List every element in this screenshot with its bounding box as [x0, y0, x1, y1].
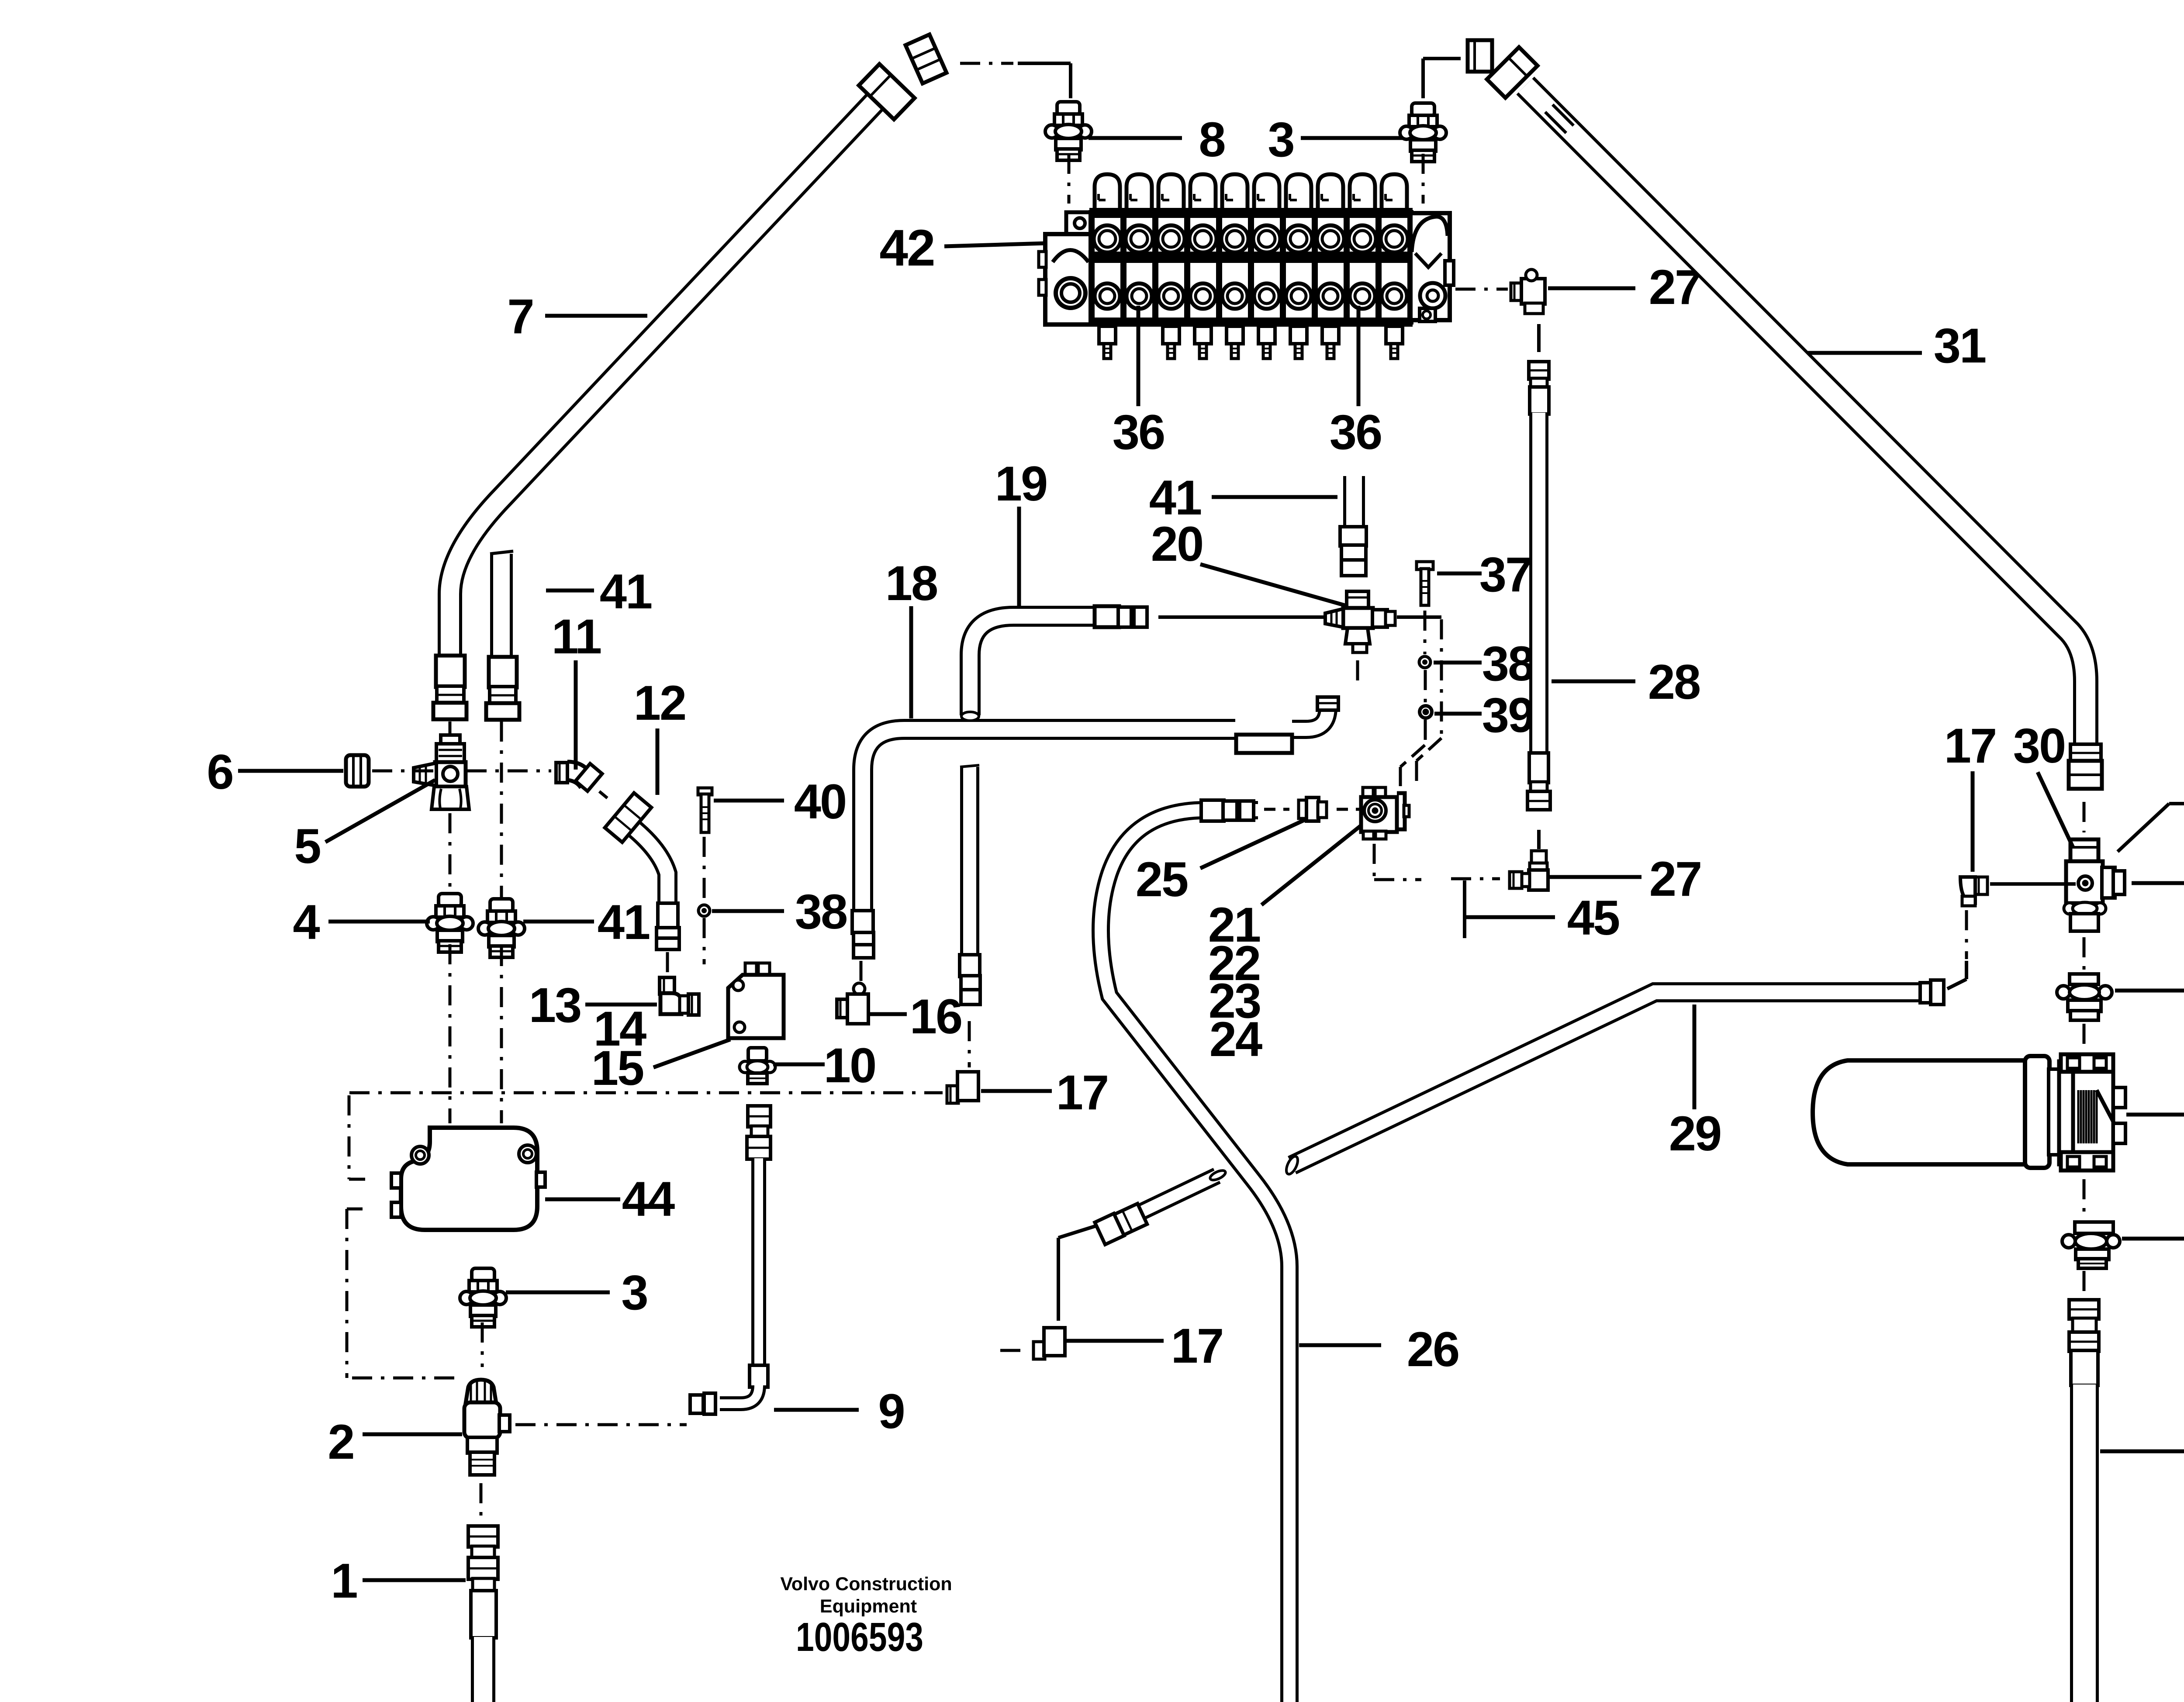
- filter 43 canister: [1813, 1060, 2025, 1164]
- label 27 lower leader: [1549, 875, 1641, 879]
- elbow 27 top: [1511, 283, 1522, 300]
- hose 29 end collar: [1920, 983, 1932, 1003]
- hose 41 left nut: [486, 703, 519, 720]
- label 9 leader: [774, 1408, 859, 1412]
- svg-text:19: 19: [995, 456, 1047, 511]
- hose 18 right elbow nut: [1317, 697, 1338, 710]
- cross fitting 20 left cone: [1325, 609, 1343, 627]
- svg-text:31: 31: [1934, 318, 1986, 373]
- hose 9: [751, 1158, 766, 1366]
- centerline fitting 32 to filter 43: [2083, 1024, 2086, 1048]
- svg-text:1: 1: [331, 1554, 357, 1608]
- elbow 16: [854, 983, 865, 994]
- stub hose: [1118, 1176, 1217, 1223]
- label 33 leader: [2122, 1237, 2184, 1241]
- centerline fitting 4 down: [449, 944, 452, 1123]
- svg-text:41: 41: [598, 895, 650, 949]
- nut 25: [1299, 800, 1307, 818]
- label 41 upper leader: [546, 589, 594, 593]
- label 31 leader: [1807, 351, 1922, 355]
- hose 31 top ferrule: [1487, 47, 1538, 98]
- svg-text:30: 30: [2013, 718, 2065, 773]
- label 28 leader: [1552, 680, 1635, 684]
- label 2 leader: [363, 1433, 462, 1436]
- centerline washer 38 down to block 15: [703, 918, 706, 964]
- centerline fitting 3 to valve: [1422, 154, 1425, 204]
- svg-text:41: 41: [600, 564, 652, 619]
- valve bank 42 left mounting ear: [1066, 212, 1092, 235]
- centerline cross 20 down: [1356, 660, 1359, 684]
- hose 31: [1525, 86, 2086, 745]
- label 36 right leader: [2118, 804, 2169, 852]
- centerline hose 41 down to fitting 41: [500, 722, 503, 898]
- nut 6: [346, 755, 369, 787]
- link line cross 20 right to corner: [1397, 615, 1441, 619]
- fitting 41 lower: [490, 899, 513, 912]
- hose 19 rings: [1118, 607, 1131, 627]
- hose 9 lower ferrule: [750, 1365, 768, 1387]
- hose 29: [1292, 992, 1918, 1165]
- block 15 top fitting: [745, 963, 757, 975]
- label 39 leader: [1434, 712, 1482, 716]
- hose 7 upper 45-deg ferrule: [859, 64, 915, 120]
- svg-text:38: 38: [1482, 636, 1534, 691]
- filter 43 right tabs: [2113, 1087, 2125, 1108]
- fitting 10: [748, 1048, 767, 1061]
- elbow 11: [556, 763, 567, 783]
- hose 41 left ferrule: [489, 657, 517, 687]
- hose 26: [1101, 810, 1289, 1702]
- centerline hose 28 bottom to elbow 27 lower: [1537, 830, 1541, 849]
- elbow 27 lower: [1531, 851, 1546, 864]
- svg-text:17: 17: [1944, 718, 1996, 773]
- hose 1 hex: [468, 1557, 498, 1579]
- svg-text:6: 6: [207, 745, 232, 799]
- cross fitting 20 body: [1343, 608, 1373, 628]
- centerline tee 5 to elbow 11: [372, 770, 435, 773]
- svg-text:26: 26: [1407, 1322, 1459, 1377]
- hose 16 ferrule: [960, 955, 980, 977]
- label 30 leader: [2038, 772, 2073, 847]
- label 37 leader: [1437, 572, 1482, 576]
- label 7 leader: [545, 314, 647, 318]
- hose 19 sleeve: [1095, 606, 1119, 627]
- svg-text:27: 27: [1649, 852, 1701, 906]
- filter 43 neck: [2049, 1069, 2060, 1155]
- hose 1 top nut: [468, 1526, 498, 1547]
- hose 9 band: [751, 1126, 768, 1137]
- filter 43 head plate: [2059, 1061, 2074, 1164]
- valve 2: [466, 1380, 496, 1403]
- hose 31 bottom nut: [2069, 761, 2102, 789]
- svg-text:13: 13: [529, 978, 581, 1032]
- svg-text:17: 17: [1056, 1065, 1108, 1120]
- label 27 top leader: [1548, 287, 1635, 290]
- label 42 leader: [944, 243, 1045, 246]
- svg-text:39: 39: [1482, 688, 1534, 742]
- hose 31 bottom collar: [2070, 744, 2101, 762]
- hose 19: [970, 616, 1094, 715]
- label 17 middle leader: [981, 1089, 1052, 1093]
- centerline tee 5 down to fitting 4: [449, 813, 452, 892]
- block 15 plate: [728, 975, 784, 1038]
- label 10 leader: [773, 1063, 825, 1067]
- valve bank 42 top row ports: [1094, 225, 1121, 252]
- valve bank 42 bottom studs: [1099, 326, 1116, 344]
- bolt 40: [698, 788, 712, 795]
- label 41 middle leader: [1212, 495, 1337, 499]
- hose 28 bottom sleeve: [1529, 753, 1548, 783]
- fitting 33: [2075, 1222, 2113, 1233]
- hose 34 top collar: [2073, 1318, 2096, 1333]
- elbow 17 middle: [963, 1073, 975, 1085]
- label 4 leader: [328, 920, 430, 924]
- svg-text:5: 5: [294, 819, 320, 873]
- label 43 leader: [2126, 1113, 2184, 1117]
- svg-text:7: 7: [507, 289, 533, 344]
- svg-text:8: 8: [1199, 112, 1224, 167]
- label 34 leader: [2100, 1450, 2184, 1453]
- hose 26 top ferrule: [1201, 800, 1224, 821]
- centerline fitting 33 to hose 34: [2083, 1271, 2086, 1295]
- link hose 29 nut to elbow 17 right: [1965, 961, 1968, 979]
- hose 28 top collar: [1531, 378, 1547, 388]
- hose 34 sleeve: [2071, 1350, 2098, 1385]
- label 6 leader: [238, 769, 343, 773]
- hose 31 collar ticks: [1545, 104, 1573, 133]
- centerline elbow 11 to hose 12: [599, 791, 610, 800]
- hose 16 rings: [961, 976, 980, 991]
- cross fitting 20 right port: [1372, 610, 1387, 627]
- hose 16 vertical: [960, 767, 979, 956]
- centerline left of elbow 17 bottom: [1000, 1349, 1020, 1352]
- svg-text:Equipment: Equipment: [820, 1596, 917, 1617]
- hose 1: [471, 1637, 495, 1702]
- centerline from hose 7 to fitting 8: [960, 62, 1013, 65]
- cross fitting 20 bottom skirt: [1345, 628, 1370, 644]
- label 5 leader: [325, 780, 435, 842]
- valve bank 42 right end block: [1410, 213, 1450, 320]
- hose 34 second nut: [2069, 1332, 2099, 1351]
- hose 41 middle: [1343, 476, 1365, 528]
- centerline horizontal main: [349, 1091, 943, 1094]
- label 32 leader: [2115, 989, 2184, 993]
- valve 44 screws: [411, 1146, 429, 1164]
- centerline above elbow 17 middle: [968, 1021, 971, 1067]
- svg-text:18: 18: [885, 556, 937, 611]
- cross fitting 20 bottom nub: [1353, 644, 1367, 652]
- svg-text:44: 44: [622, 1172, 675, 1226]
- hose 12 lower ferrule: [658, 903, 678, 929]
- hose 29 end nut: [1931, 980, 1944, 1005]
- valve bank 42 section caps: [1095, 174, 1120, 210]
- valve bank 42 right lower ear: [1420, 308, 1435, 321]
- valve 21 right bracket: [1397, 793, 1405, 829]
- svg-text:Volvo Construction: Volvo Construction: [780, 1574, 952, 1595]
- fitting 4: [439, 894, 461, 907]
- svg-text:28: 28: [1648, 655, 1700, 709]
- label 15 leader: [653, 1039, 730, 1067]
- cross 30 top nut: [2070, 839, 2098, 862]
- label 21 leader: [1261, 825, 1361, 905]
- bolt 37: [1417, 562, 1433, 570]
- elbow 13 with fitting 14: [660, 977, 674, 994]
- svg-text:17: 17: [1171, 1319, 1223, 1373]
- stub hose ferrule: [1114, 1204, 1147, 1235]
- fitting 8: [1057, 102, 1080, 115]
- centerline valve 21 down-corner: [1373, 844, 1376, 880]
- valve bank 42 right port nub: [1445, 261, 1454, 285]
- label 26 leader: [1299, 1343, 1381, 1347]
- hose 9 elbow: [720, 1385, 759, 1404]
- hose 34 top nut: [2069, 1300, 2099, 1319]
- centerline valve 2 to hose 1: [480, 1483, 483, 1521]
- tee 5: [441, 735, 460, 745]
- hose 18 left rings: [854, 932, 874, 946]
- svg-text:20: 20: [1151, 517, 1203, 571]
- centerline hose7 to tee 5: [449, 722, 452, 734]
- label 38 left leader: [712, 909, 784, 913]
- centerline hose 31 to cross 30: [2083, 802, 2086, 832]
- centerline washer 39 down-jog: [1424, 720, 1427, 745]
- hose 18: [863, 729, 1235, 911]
- label 44 leader: [545, 1198, 620, 1201]
- label 1 leader: [363, 1578, 466, 1582]
- hose 41 left: [490, 554, 513, 658]
- hose 18 left ferrule: [852, 911, 873, 933]
- cross 30 bottom ears: [2064, 903, 2075, 914]
- hose 12 lower rings: [657, 928, 679, 939]
- centerline washer 38 down: [1424, 670, 1427, 704]
- dashed frame left vertical: [348, 1095, 351, 1179]
- washer 38 right: [1419, 656, 1431, 668]
- hose 28 bottom collar: [1531, 782, 1547, 792]
- label 3 left leader: [506, 1291, 610, 1295]
- svg-text:12: 12: [634, 676, 686, 730]
- valve 21 bottom tabs: [1363, 831, 1374, 839]
- hose 7: [450, 101, 875, 656]
- valve 21 top tabs: [1363, 787, 1373, 798]
- hose 31 top nut: [1468, 40, 1492, 72]
- label 17 bottom leader: [1066, 1339, 1164, 1343]
- washer 39: [1420, 706, 1432, 718]
- svg-text:2: 2: [328, 1415, 353, 1469]
- link line hose 19 to cross 20: [1158, 615, 1339, 619]
- centerline hose 26 end to nut 25 to valve 21: [1264, 808, 1289, 811]
- centerline valve to elbow 27 top: [1455, 288, 1508, 291]
- hose 7 lower ferrule: [436, 656, 465, 687]
- hose 1 band: [472, 1546, 494, 1558]
- label 18 leader: [909, 606, 913, 718]
- hose 18 sleeve: [1236, 735, 1292, 753]
- centerline from hose 31 to fitting 3: [1423, 57, 1461, 60]
- valve 44 body: [401, 1128, 537, 1230]
- centerline hose 12 to elbow 13: [666, 952, 669, 976]
- hose 7 lower nut: [433, 703, 467, 719]
- centerline cross 30 to fitting 32: [2083, 937, 2086, 970]
- svg-text:25: 25: [1136, 852, 1188, 907]
- valve 44 left tabs: [391, 1173, 401, 1188]
- svg-text:45: 45: [1567, 891, 1619, 945]
- centerline valve 2 horizontal: [352, 1377, 457, 1380]
- valve 44 right tab: [536, 1172, 545, 1187]
- label 11 leader: [574, 660, 578, 770]
- svg-text:11: 11: [552, 609, 601, 664]
- filter 43 diagonal strut: [2097, 1090, 2123, 1140]
- hose 26 top rings: [1223, 801, 1237, 820]
- svg-text:4: 4: [293, 895, 320, 949]
- hose 12 upper ferrule: [605, 793, 652, 842]
- washer 38 left: [698, 905, 710, 916]
- filter 43 collar: [2025, 1056, 2049, 1168]
- cross 30 right port: [2102, 867, 2115, 898]
- fitting 3 top: [1412, 103, 1434, 116]
- cross 30 bottom nut: [2070, 914, 2098, 931]
- hose 41 left collar: [490, 687, 516, 704]
- label 12 leader: [656, 728, 660, 795]
- centerline fitting 41 down: [500, 946, 503, 1123]
- hose 28: [1529, 413, 1548, 754]
- svg-text:3: 3: [1268, 112, 1293, 167]
- bracket 45: [1463, 880, 1466, 938]
- centerline bolt 37 down: [1424, 611, 1427, 654]
- centerline hose 9 elbow left: [515, 1423, 687, 1426]
- label 35 leaders: [2132, 881, 2184, 885]
- valve bank 42 body: [1092, 210, 1410, 325]
- hose 41 middle ferrule: [1340, 527, 1366, 546]
- hose 34: [2070, 1384, 2099, 1702]
- valve bank 42 bottom row ports: [1095, 283, 1120, 309]
- label 41 lower leader: [523, 920, 594, 924]
- centerline filter 43 to fitting 33: [2083, 1179, 2086, 1216]
- label 17 right leader: [1971, 771, 1975, 872]
- elbow 17 right: [1974, 877, 1987, 894]
- label 20 leader: [1200, 564, 1348, 606]
- link elbow 27 top to hose 28: [1537, 324, 1541, 352]
- valve 21 body: [1361, 797, 1397, 832]
- filter 43 head block: [2073, 1071, 2113, 1154]
- svg-text:1006593: 1006593: [796, 1614, 923, 1660]
- leader elbow 17 to cross 30: [1990, 882, 2076, 886]
- svg-text:38: 38: [795, 884, 847, 939]
- hose 28 top sleeve: [1530, 387, 1549, 414]
- svg-text:24: 24: [1209, 1012, 1262, 1067]
- bracket stub hose to elbow 17 bottom: [1058, 1226, 1097, 1238]
- centerline fitting 3 to valve 2: [481, 1322, 484, 1367]
- hose 41 middle rings: [1341, 545, 1366, 561]
- label 36 left leader: [1137, 306, 1140, 406]
- cross fitting 20 top nut: [1347, 591, 1368, 610]
- elbow 17 bottom: [1047, 1329, 1059, 1341]
- label 13 leader: [585, 1003, 657, 1007]
- svg-text:9: 9: [878, 1384, 904, 1439]
- label 3 top leader: [1301, 136, 1403, 140]
- hose 7 upper nut: [905, 35, 947, 83]
- label 16 leader: [870, 1012, 907, 1016]
- centerline bolt 40 down: [703, 837, 706, 900]
- hose 12: [625, 821, 667, 905]
- fitting 3 left: [472, 1268, 494, 1281]
- hose 1 sleeve: [471, 1591, 496, 1638]
- centerline hose18 left end to elbow 16: [860, 961, 863, 988]
- hose 28 top nut: [1529, 362, 1549, 379]
- svg-text:3: 3: [621, 1265, 647, 1320]
- valve bank 42 section divider bars: [1089, 210, 1095, 325]
- label 38 right leader: [1434, 661, 1482, 665]
- svg-text:29: 29: [1669, 1106, 1721, 1161]
- hose 28 bottom nut: [1527, 791, 1550, 810]
- label 19 leader: [1017, 507, 1021, 607]
- stub hose nut: [1095, 1213, 1124, 1244]
- svg-text:16: 16: [910, 989, 962, 1044]
- hose 7 lower collar: [437, 686, 464, 704]
- cross 30 body: [2066, 861, 2103, 903]
- label 8 leader: [1089, 136, 1182, 140]
- svg-text:37: 37: [1479, 547, 1531, 602]
- label 36 right-of-valve leader: [1357, 306, 1361, 406]
- svg-text:40: 40: [794, 774, 846, 829]
- svg-text:36: 36: [1113, 405, 1165, 459]
- svg-text:36: 36: [1330, 405, 1382, 459]
- hose 9 end rings: [704, 1393, 715, 1414]
- hose 9 top nut: [748, 1106, 771, 1127]
- fitting 32: [2070, 974, 2098, 984]
- valve bank 42 left end block: [1045, 234, 1092, 325]
- label 29 leader: [1693, 1005, 1697, 1109]
- centerline fitting 8 to valve: [1068, 154, 1071, 204]
- filter 43 bottom flange: [2061, 1152, 2113, 1170]
- filter 43 top flange: [2061, 1054, 2113, 1072]
- svg-text:10: 10: [824, 1038, 876, 1093]
- hose 9 hex: [747, 1136, 771, 1159]
- filter 43 element hatch: [2078, 1090, 2097, 1143]
- svg-text:15: 15: [591, 1041, 643, 1095]
- hose 1 collar: [473, 1578, 494, 1592]
- centerline corner down to valve 21: [1440, 619, 1443, 738]
- label 40 leader: [714, 799, 784, 803]
- svg-text:42: 42: [879, 219, 934, 277]
- label 25 leader: [1200, 818, 1308, 868]
